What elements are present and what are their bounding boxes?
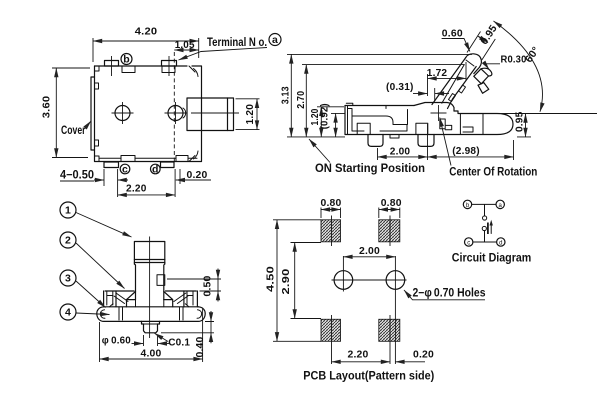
svg-text:(0.92): (0.92) bbox=[319, 103, 331, 129]
svg-text:1.20: 1.20 bbox=[244, 104, 256, 125]
svg-text:2.90: 2.90 bbox=[280, 269, 292, 295]
svg-text:0.95: 0.95 bbox=[514, 112, 526, 133]
svg-text:(0.31): (0.31) bbox=[386, 81, 414, 93]
svg-text:2.20: 2.20 bbox=[126, 183, 147, 195]
svg-text:Center Of Rotation: Center Of Rotation bbox=[449, 167, 537, 179]
svg-text:0.20: 0.20 bbox=[413, 349, 434, 361]
svg-text:d: d bbox=[152, 163, 159, 175]
svg-text:3.60: 3.60 bbox=[41, 96, 53, 119]
svg-text:Terminal N o.: Terminal N o. bbox=[207, 37, 267, 49]
svg-text:1: 1 bbox=[65, 205, 71, 217]
svg-text:a: a bbox=[272, 34, 278, 46]
svg-text:0.40: 0.40 bbox=[194, 337, 206, 358]
svg-text:0.60: 0.60 bbox=[442, 28, 463, 40]
svg-text:2.00: 2.00 bbox=[359, 245, 380, 257]
svg-text:0.20: 0.20 bbox=[187, 169, 208, 181]
svg-text:4−0.50: 4−0.50 bbox=[60, 170, 94, 182]
svg-text:4.00: 4.00 bbox=[141, 348, 162, 360]
svg-text:0.80: 0.80 bbox=[321, 197, 342, 209]
svg-text:2.20: 2.20 bbox=[348, 349, 369, 361]
svg-text:4.20: 4.20 bbox=[135, 26, 158, 38]
svg-text:1.05: 1.05 bbox=[175, 39, 195, 51]
svg-text:(2.98): (2.98) bbox=[452, 145, 480, 157]
svg-text:2.70: 2.70 bbox=[295, 91, 307, 109]
svg-text:2.00: 2.00 bbox=[390, 146, 411, 158]
svg-text:Circuit Diagram: Circuit Diagram bbox=[452, 253, 532, 265]
svg-text:c: c bbox=[467, 241, 470, 247]
svg-text:R0.30: R0.30 bbox=[501, 54, 527, 66]
svg-text:φ 0.60: φ 0.60 bbox=[102, 335, 131, 347]
svg-text:ON Starting Position: ON Starting Position bbox=[315, 163, 425, 175]
svg-text:b: b bbox=[123, 54, 130, 66]
svg-text:4.50: 4.50 bbox=[265, 266, 277, 292]
svg-text:0.50: 0.50 bbox=[202, 276, 214, 297]
svg-text:d: d bbox=[499, 241, 502, 247]
svg-text:2−φ 0.70 Holes: 2−φ 0.70 Holes bbox=[413, 288, 486, 300]
svg-text:3: 3 bbox=[65, 273, 71, 285]
svg-text:Cover: Cover bbox=[61, 125, 86, 137]
svg-text:0.80: 0.80 bbox=[381, 197, 402, 209]
svg-text:2: 2 bbox=[65, 235, 71, 247]
svg-text:1.72: 1.72 bbox=[427, 67, 448, 79]
svg-text:PCB Layout(Pattern side): PCB Layout(Pattern side) bbox=[303, 371, 434, 383]
svg-text:C0.1: C0.1 bbox=[168, 337, 190, 349]
svg-text:4: 4 bbox=[65, 307, 71, 319]
svg-text:c: c bbox=[122, 163, 128, 175]
svg-text:3.13: 3.13 bbox=[280, 86, 292, 104]
